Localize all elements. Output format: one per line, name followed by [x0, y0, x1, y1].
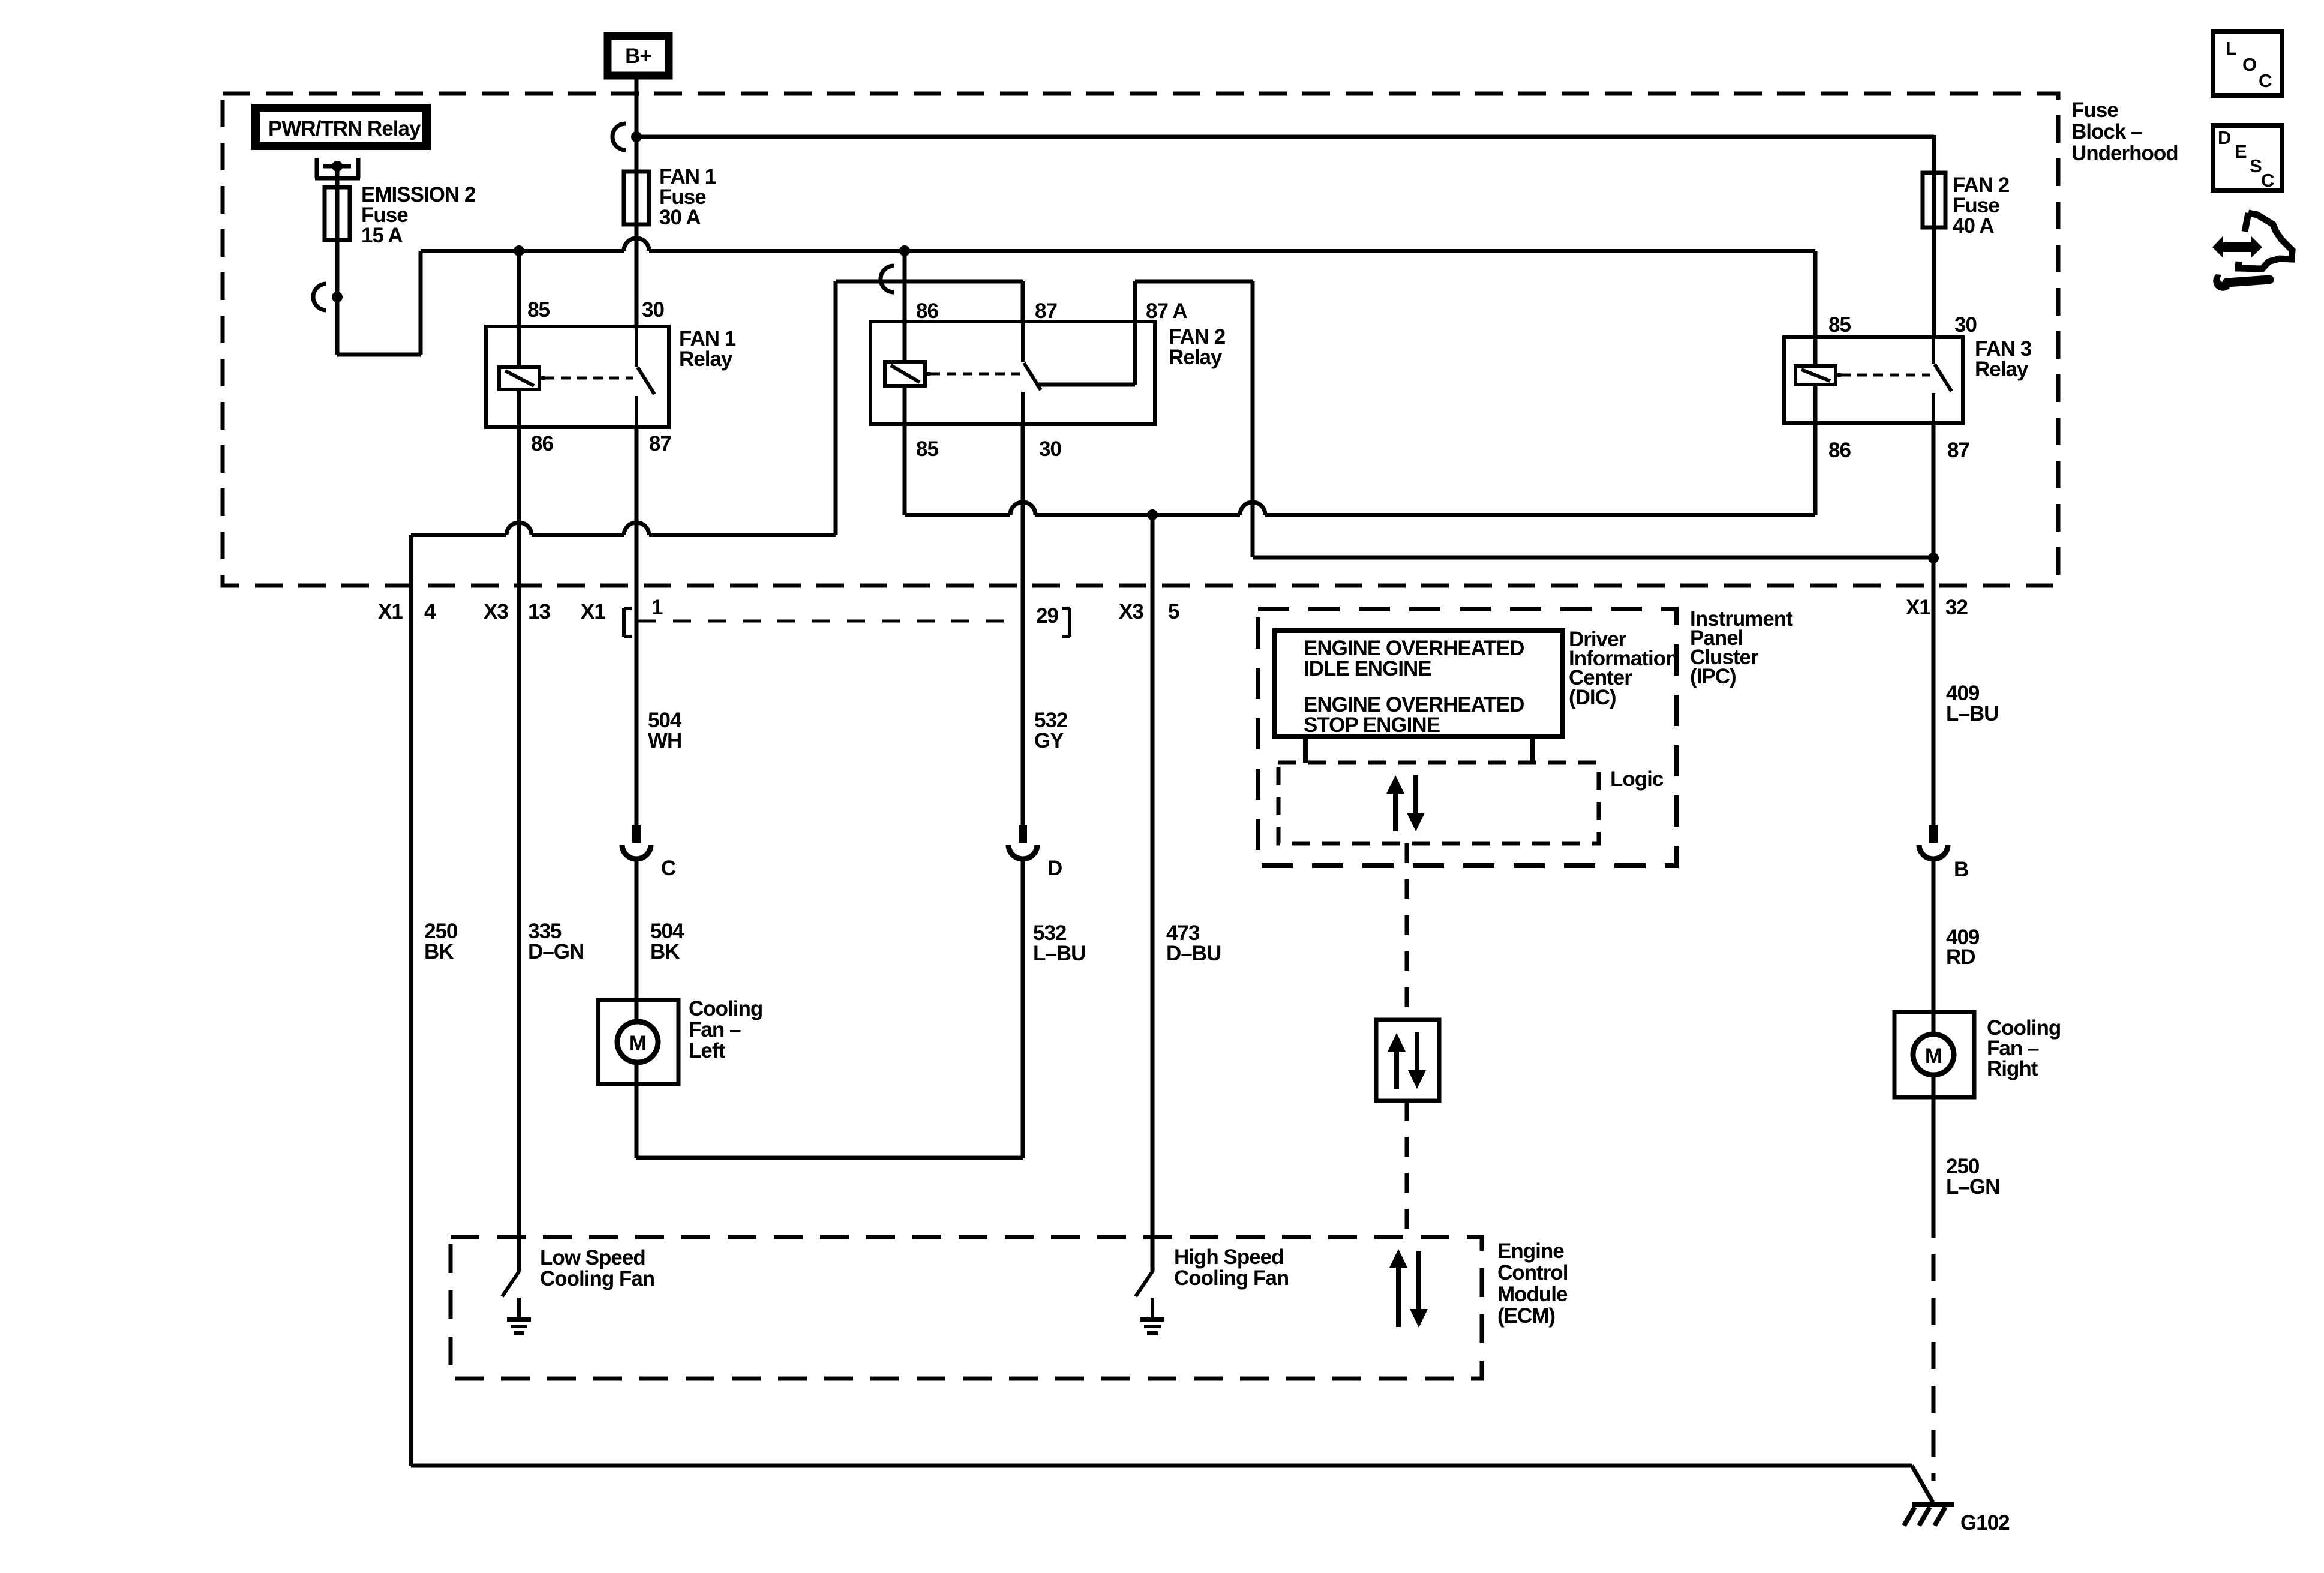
node 87A joins 409 wire	[1928, 553, 1939, 563]
engine control module dashed box	[451, 1237, 1482, 1379]
wire bus down to FAN1 pin 85	[517, 251, 521, 326]
fuse block underhood dashed border	[223, 94, 2058, 586]
connector X1 bracket right	[1068, 608, 1071, 637]
ground G102 symbol	[1912, 1502, 1954, 1507]
logic dashed box	[1278, 763, 1599, 843]
svg-text:85: 85	[1828, 313, 1851, 337]
serial data arrow box	[1376, 1020, 1439, 1101]
svg-text:87: 87	[1035, 299, 1057, 323]
node emission splice	[332, 292, 343, 302]
svg-text:GY: GY	[1034, 729, 1064, 752]
relay FAN 1 actuation dashed link	[539, 376, 545, 380]
logic up arrow	[1393, 791, 1398, 831]
in-line connector D	[1019, 825, 1027, 843]
node 473 wire tap	[1147, 509, 1158, 520]
svg-text:X3: X3	[484, 600, 508, 623]
svg-text:30: 30	[642, 298, 664, 322]
wire FAN3 pin 85 up to bus	[1813, 251, 1818, 337]
PWR/TRN Relay box	[256, 108, 427, 146]
svg-text:B+: B+	[625, 44, 651, 68]
DESC reference box	[2213, 125, 2282, 190]
svg-text:86: 86	[531, 432, 553, 455]
svg-text:Control: Control	[1497, 1261, 1568, 1284]
service icon double arrow	[2212, 236, 2262, 258]
wire FAN2 fuse to FAN3 relay pin 30	[1932, 227, 1936, 337]
svg-text:15 A: 15 A	[361, 224, 403, 247]
wire 473 D-BU (tap to ECM high speed)	[1151, 515, 1155, 1236]
svg-text:Relay: Relay	[1169, 346, 1223, 369]
relay FAN 3 box	[1784, 337, 1963, 423]
wire left motor bottom loop	[635, 1084, 639, 1158]
wire emission jog right and up to bus	[337, 353, 421, 357]
LOC reference box	[2213, 31, 2282, 95]
relay FAN 2 switch	[1021, 322, 1025, 362]
svg-text:87: 87	[1947, 439, 1969, 462]
svg-text:X3: X3	[1119, 600, 1143, 623]
svg-text:O: O	[2242, 54, 2257, 75]
wire from FAN2-87 loop left to 250 BK (horizontal with hops)	[411, 533, 506, 537]
wire FAN2 87A to FAN3 pin 87 (horizontal)	[1253, 556, 1933, 560]
svg-text:Relay: Relay	[1975, 358, 2029, 381]
DIC box stubs to logic	[1303, 737, 1308, 763]
svg-text:WH: WH	[648, 729, 681, 752]
svg-text:Cooling Fan: Cooling Fan	[540, 1267, 654, 1290]
relay FAN 2 box	[870, 322, 1155, 424]
svg-text:Relay: Relay	[679, 347, 733, 371]
svg-text:X1: X1	[378, 600, 403, 623]
wire ignition bus (horizontal)	[421, 249, 624, 253]
svg-text:30: 30	[1954, 313, 1977, 337]
high speed cooling fan switch	[1151, 1236, 1155, 1271]
svg-text:X1: X1	[1906, 596, 1930, 619]
wire EMISSION 2 fuse down	[335, 240, 340, 355]
svg-text:5: 5	[1168, 600, 1179, 623]
svg-text:L–GN: L–GN	[1946, 1175, 1999, 1199]
svg-text:IDLE ENGINE: IDLE ENGINE	[1304, 657, 1431, 680]
dashed signal wire arrow box to ECM	[1405, 1101, 1409, 1236]
connector bracket under PWR/TRN relay	[315, 158, 319, 178]
wire ground run 250 BK to G102	[411, 1464, 1912, 1468]
svg-text:Logic: Logic	[1610, 767, 1664, 791]
svg-text:1: 1	[651, 596, 663, 619]
wire B+ feed to FAN 2 fuse (top horizontal)	[636, 135, 1934, 139]
ground low speed switch	[517, 1298, 521, 1317]
wire 250 BK (X1-4 down)	[409, 535, 413, 1466]
svg-text:85: 85	[527, 298, 550, 322]
splice hook on emission wire	[313, 284, 326, 310]
svg-text:M: M	[1925, 1044, 1942, 1068]
svg-text:Fan –: Fan –	[689, 1018, 741, 1041]
fuse FAN 2 40A	[1932, 173, 1936, 227]
relay FAN 1 box	[486, 326, 669, 427]
svg-text:87 A: 87 A	[1146, 299, 1187, 323]
relay FAN 3 coil	[1813, 337, 1818, 366]
wire FAN3 pin 87 down across boundary	[1932, 423, 1936, 586]
svg-text:E: E	[2235, 141, 2247, 162]
node bus to FAN2 relay pin 86	[899, 245, 910, 256]
splice hook at B+ junction	[612, 124, 626, 150]
ECM serial data arrows	[1396, 1265, 1401, 1327]
ground high speed switch	[1151, 1298, 1154, 1317]
svg-text:BK: BK	[650, 940, 680, 963]
svg-text:High Speed: High Speed	[1174, 1245, 1284, 1269]
fuse FAN 1 30A	[635, 137, 639, 172]
relay FAN 2 actuation dashed link	[925, 372, 930, 376]
relay FAN 3 actuation dashed link	[1836, 373, 1841, 377]
svg-text:13: 13	[528, 600, 550, 623]
svg-text:PWR/TRN Relay: PWR/TRN Relay	[268, 117, 421, 140]
svg-text:32: 32	[1945, 596, 1968, 619]
wire FAN3 pin 86 down to horizontal	[1813, 423, 1818, 515]
wire PWR/TRN to EMISSION 2 fuse	[335, 166, 340, 187]
logic down arrow	[1413, 775, 1418, 816]
svg-text:D–GN: D–GN	[528, 940, 584, 963]
cooling fan right motor	[1894, 1012, 1974, 1097]
relay FAN 3 switch	[1932, 337, 1935, 364]
driver information center DIC box	[1275, 631, 1563, 737]
svg-text:L–BU: L–BU	[1033, 942, 1085, 965]
svg-text:BK: BK	[424, 940, 454, 963]
relay FAN 2 87A contact (internal)	[1036, 383, 1135, 387]
connector X1 dotted span line	[638, 620, 1020, 623]
svg-text:Engine: Engine	[1497, 1239, 1564, 1263]
svg-text:Module: Module	[1497, 1283, 1568, 1306]
svg-text:85: 85	[916, 437, 938, 461]
in-line connector C	[632, 825, 641, 843]
svg-text:30: 30	[1039, 437, 1061, 461]
svg-text:STOP ENGINE: STOP ENGINE	[1304, 713, 1440, 737]
svg-text:(ECM): (ECM)	[1497, 1304, 1555, 1328]
wire 409 L-BU (X1-32 to connector B)	[1932, 586, 1936, 825]
wire 250 L-GN below right motor	[1932, 1097, 1936, 1211]
svg-text:L: L	[2226, 38, 2237, 59]
svg-text:30 A: 30 A	[659, 206, 701, 229]
cooling fan left motor	[598, 1000, 678, 1084]
svg-text:X1: X1	[581, 600, 605, 623]
svg-text:Fuse: Fuse	[2071, 98, 2118, 122]
low speed cooling fan switch	[517, 1236, 521, 1271]
relay FAN 1 coil	[517, 326, 521, 367]
wire bus down to FAN2 pin 86	[903, 251, 907, 322]
fuse EMISSION 2 15A	[335, 187, 340, 240]
svg-text:C: C	[2261, 170, 2274, 191]
svg-text:(DIC): (DIC)	[1569, 686, 1616, 709]
svg-text:D: D	[2218, 127, 2231, 148]
wire FAN1 fuse to relay pin 30	[635, 224, 639, 326]
wire FAN2 pin 87A jog right	[1133, 281, 1137, 322]
svg-text:87: 87	[649, 432, 671, 455]
wire 532 L-BU (D down to motor loop)	[1021, 857, 1025, 1158]
wire 504 BK (C to left motor)	[635, 857, 639, 1000]
node bus to FAN1 relay pin 85	[514, 245, 524, 256]
svg-text:D: D	[1047, 857, 1062, 880]
in-line connector B	[1929, 825, 1938, 843]
svg-text:S: S	[2250, 155, 2262, 176]
svg-text:Right: Right	[1987, 1057, 2038, 1080]
svg-text:Underhood: Underhood	[2071, 142, 2178, 165]
wire FAN2 pin 85 down and right to FAN3 pin 86	[903, 424, 907, 515]
svg-text:C: C	[661, 857, 676, 880]
svg-text:B: B	[1954, 858, 1968, 881]
svg-text:40 A: 40 A	[1953, 214, 1994, 238]
node B+ junction	[631, 131, 642, 142]
wire FAN2 pin 87 loop up-left-down	[1021, 281, 1025, 322]
svg-text:Low Speed: Low Speed	[540, 1246, 645, 1269]
instrument panel cluster dashed box	[1258, 609, 1676, 866]
connector X1 bracket left	[622, 608, 626, 637]
wire 409 RD (B to right motor)	[1932, 857, 1936, 1012]
svg-text:Block –: Block –	[2071, 120, 2142, 143]
relay FAN 2 coil	[903, 322, 907, 362]
wire 504 WH (FAN1-87 to connector C)	[635, 427, 639, 825]
svg-text:G102: G102	[1960, 1511, 2010, 1535]
svg-text:86: 86	[1828, 439, 1851, 462]
splice hook below bus on FAN2-86 wire	[881, 266, 894, 292]
svg-text:M: M	[629, 1032, 646, 1055]
svg-text:RD: RD	[1946, 945, 1975, 969]
svg-text:D–BU: D–BU	[1166, 942, 1221, 965]
dashed signal wire IPC to arrow box	[1405, 843, 1409, 1020]
svg-text:(IPC): (IPC)	[1690, 665, 1736, 688]
relay FAN 1 switch	[635, 326, 638, 367]
svg-text:Left: Left	[689, 1039, 726, 1062]
svg-text:86: 86	[916, 299, 938, 323]
wire 532 GY (FAN2-30 to connector D)	[1021, 424, 1025, 825]
service icon wrench	[2227, 280, 2269, 283]
svg-text:4: 4	[424, 600, 436, 623]
svg-text:C: C	[2259, 70, 2272, 91]
wire B+ down to junction	[635, 79, 639, 137]
svg-text:29: 29	[1036, 604, 1058, 628]
svg-text:Cooling Fan: Cooling Fan	[1174, 1266, 1289, 1290]
service icon hood outline	[2238, 213, 2292, 269]
svg-text:L–BU: L–BU	[1946, 702, 1998, 725]
B+ terminal box	[608, 36, 669, 76]
wire 335 D-GN (FAN1-86 to ECM)	[517, 427, 521, 1236]
wire 250 L-GN dashed continuation to G102	[1932, 1211, 1936, 1481]
svg-text:Cooling: Cooling	[689, 997, 762, 1020]
